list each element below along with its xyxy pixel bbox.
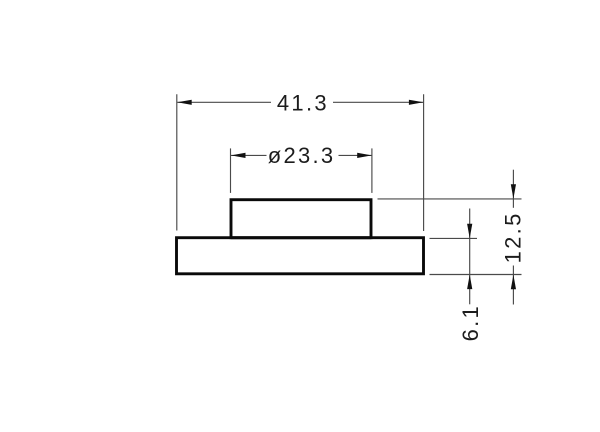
svg-text:41.3: 41.3 — [277, 91, 329, 116]
boss (top rectangle) outline — [231, 200, 371, 238]
dimension 41.3 left arrowhead — [177, 100, 192, 105]
dimension 12.5 / 6.1 shared extension line bottom — [430, 274, 522, 276]
svg-text:6.1: 6.1 — [458, 304, 483, 341]
svg-text:ø23.3: ø23.3 — [268, 143, 336, 168]
dimension 6.1 line — [469, 209, 471, 305]
dimension 12.5 extension line top — [378, 198, 522, 200]
dimension ø23.3 line right segment — [339, 154, 372, 156]
svg-text:12.5: 12.5 — [500, 211, 525, 263]
dimension 41.3 extension line right — [423, 94, 425, 231]
dimension 6.1 upper arrowhead — [467, 224, 472, 239]
dimension ø23.3 left arrowhead — [231, 153, 246, 158]
dimension 12.5 line lower segment — [512, 266, 514, 305]
dimension 12.5 lower arrowhead — [511, 275, 516, 290]
shared edge wire — [231, 236, 371, 239]
dimension 41.3 extension line left — [176, 94, 178, 230]
dimension ø23.3 right arrowhead — [357, 153, 372, 158]
dimension 41.3 right arrowhead — [409, 100, 424, 105]
dimension 6.1 lower arrowhead — [467, 275, 472, 290]
dimension 6.1 extension line top — [430, 237, 478, 239]
base plate outline — [177, 238, 424, 274]
dimension ø23.3 line left segment — [231, 154, 267, 156]
dimension 41.3 line right segment — [333, 101, 423, 103]
dimension 41.3 line left segment — [177, 101, 271, 103]
dimension ø23.3 extension line left — [230, 148, 232, 193]
dimension ø23.3 extension line right — [371, 148, 373, 193]
dimension 12.5 upper arrowhead — [511, 184, 516, 199]
dimension 12.5 line upper segment — [512, 170, 514, 208]
